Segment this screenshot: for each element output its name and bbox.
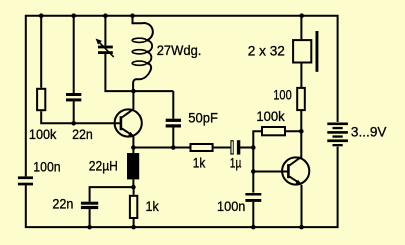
svg-text:2 x 32: 2 x 32 [248,42,285,58]
svg-text:100k: 100k [256,108,285,124]
svg-text:22n: 22n [72,126,93,142]
svg-text:50pF: 50pF [188,109,218,125]
svg-text:1k: 1k [146,198,160,214]
svg-text:22µH: 22µH [89,158,118,174]
svg-text:100n: 100n [217,198,245,214]
svg-text:1k: 1k [193,155,206,171]
svg-text:3...9V: 3...9V [351,124,387,140]
svg-text:1µ: 1µ [230,155,242,171]
svg-text:100: 100 [273,86,292,102]
svg-text:100k: 100k [29,126,57,142]
svg-text:27Wdg.: 27Wdg. [157,42,202,58]
svg-text:22n: 22n [52,195,73,211]
svg-text:100n: 100n [33,159,60,175]
